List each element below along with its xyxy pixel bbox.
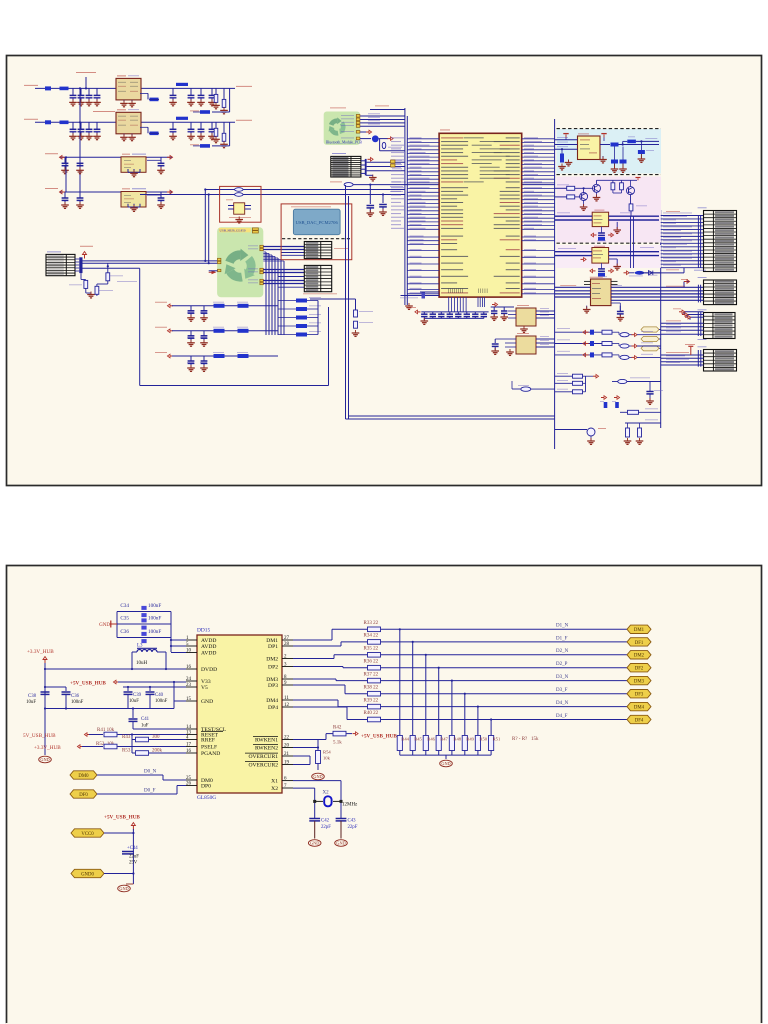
svg-text:DP2: DP2 xyxy=(268,665,278,671)
svg-text:R39 22: R39 22 xyxy=(364,698,379,703)
svg-text:DM2: DM2 xyxy=(266,657,278,663)
svg-text:VCC0: VCC0 xyxy=(81,832,94,837)
svg-text:100nF: 100nF xyxy=(155,699,168,704)
svg-text:DVDD: DVDD xyxy=(201,667,217,673)
svg-text:20: 20 xyxy=(284,743,290,748)
svg-text:C39: C39 xyxy=(133,693,142,698)
svg-text:R40 22: R40 22 xyxy=(364,711,379,716)
svg-text:14: 14 xyxy=(186,725,192,730)
svg-text:27: 27 xyxy=(284,636,290,641)
svg-text:DP3: DP3 xyxy=(268,683,278,689)
svg-text:23: 23 xyxy=(186,683,192,688)
svg-text:10: 10 xyxy=(186,648,192,653)
svg-text:C36: C36 xyxy=(120,629,129,635)
svg-text:DM4: DM4 xyxy=(634,706,645,711)
svg-text:R50: R50 xyxy=(479,737,487,742)
svg-text:DM3: DM3 xyxy=(634,680,645,685)
svg-text:R33 22: R33 22 xyxy=(364,621,379,626)
svg-text:100nF: 100nF xyxy=(148,629,161,635)
svg-text:R? - R? 15k: R? - R? 15k xyxy=(512,737,539,742)
svg-text:D2_N: D2_N xyxy=(556,649,569,654)
svg-text:R34 22: R34 22 xyxy=(364,634,379,639)
svg-text:RWKEN1: RWKEN1 xyxy=(255,738,278,744)
svg-text:28: 28 xyxy=(284,642,290,647)
svg-text:Bluetooth_Module_PCB: Bluetooth_Module_PCB xyxy=(326,140,362,144)
svg-text:21: 21 xyxy=(284,752,290,757)
svg-text:C36: C36 xyxy=(71,694,80,699)
svg-text:5.1k: 5.1k xyxy=(333,741,342,746)
svg-text:D0_N: D0_N xyxy=(144,770,157,775)
svg-text:RWKEN2: RWKEN2 xyxy=(255,746,278,752)
svg-text:OVERCUR2: OVERCUR2 xyxy=(248,763,278,769)
svg-text:26: 26 xyxy=(186,781,192,786)
svg-text:1uF: 1uF xyxy=(141,724,149,729)
svg-text:DF0: DF0 xyxy=(79,793,88,798)
svg-text:24: 24 xyxy=(186,677,192,682)
svg-text:D1_F: D1_F xyxy=(556,636,568,641)
svg-text:25V: 25V xyxy=(129,861,138,866)
svg-text:17: 17 xyxy=(186,742,192,747)
svg-text:25: 25 xyxy=(186,776,192,781)
svg-text:GND: GND xyxy=(99,623,110,628)
svg-text:DM2: DM2 xyxy=(634,654,645,659)
svg-text:R36 22: R36 22 xyxy=(364,659,379,664)
svg-text:10uF: 10uF xyxy=(26,700,36,705)
svg-text:D2_P: D2_P xyxy=(556,662,568,667)
svg-text:GND0: GND0 xyxy=(81,872,94,877)
svg-text:R46: R46 xyxy=(427,737,435,742)
svg-text:GL850G: GL850G xyxy=(197,795,216,801)
svg-text:R49: R49 xyxy=(466,737,474,742)
svg-text:D0_F: D0_F xyxy=(144,789,156,794)
svg-text:AVDD: AVDD xyxy=(201,644,216,650)
svg-text:R45: R45 xyxy=(414,737,422,742)
svg-text:22pF: 22pF xyxy=(348,825,358,830)
svg-text:USB_HUB_GL850: USB_HUB_GL850 xyxy=(220,229,246,233)
svg-text:PSELF: PSELF xyxy=(201,745,217,751)
svg-text:D3_F: D3_F xyxy=(556,688,568,693)
svg-text:DF2: DF2 xyxy=(635,667,644,672)
svg-text:R53: R53 xyxy=(122,749,131,754)
svg-text:C40: C40 xyxy=(155,693,164,698)
svg-text:+5V_USB_HUB: +5V_USB_HUB xyxy=(70,680,106,686)
svg-text:D3_N: D3_N xyxy=(556,675,569,680)
svg-text:C35: C35 xyxy=(120,615,129,621)
svg-text:RREF: RREF xyxy=(201,738,215,744)
svg-text:D4_F: D4_F xyxy=(556,714,568,719)
svg-text:12: 12 xyxy=(284,703,290,708)
svg-text:+C44: +C44 xyxy=(127,846,138,851)
svg-text:10k: 10k xyxy=(323,756,331,761)
svg-text:C43: C43 xyxy=(348,819,357,824)
svg-text:DP1: DP1 xyxy=(268,644,278,650)
svg-text:15: 15 xyxy=(186,697,192,702)
svg-text:X2: X2 xyxy=(323,791,330,796)
svg-text:+5V_USB_HUB: +5V_USB_HUB xyxy=(361,733,397,739)
svg-text:100nF: 100nF xyxy=(148,603,161,609)
svg-text:GND: GND xyxy=(336,841,345,846)
svg-text:V5: V5 xyxy=(201,685,208,691)
svg-text:GND: GND xyxy=(310,841,319,846)
svg-text:R42: R42 xyxy=(333,726,342,731)
svg-text:100nF: 100nF xyxy=(148,615,161,621)
svg-text:10uH: 10uH xyxy=(136,661,148,666)
svg-text:DM0: DM0 xyxy=(78,774,89,779)
svg-text:USB_DAC_PCM2706: USB_DAC_PCM2706 xyxy=(296,220,339,225)
svg-text:11: 11 xyxy=(284,696,289,701)
svg-text:X2: X2 xyxy=(271,786,278,792)
svg-text:16: 16 xyxy=(186,749,192,754)
svg-text:22: 22 xyxy=(284,735,290,740)
svg-text:+5V_USB_HUB: +5V_USB_HUB xyxy=(104,815,140,821)
svg-text:19: 19 xyxy=(284,760,290,765)
svg-text:R35 22: R35 22 xyxy=(364,647,379,652)
svg-text:DP0: DP0 xyxy=(201,784,211,790)
svg-text:5V_USB_HUB: 5V_USB_HUB xyxy=(23,733,56,739)
svg-text:+3.3V_HUB: +3.3V_HUB xyxy=(27,649,54,655)
svg-text:DF1: DF1 xyxy=(635,641,644,646)
svg-text:GND: GND xyxy=(119,886,128,891)
svg-text:R38 22: R38 22 xyxy=(364,685,379,690)
svg-text:D1_N: D1_N xyxy=(556,624,569,629)
svg-text:12MHz: 12MHz xyxy=(342,803,358,808)
svg-text:R51: R51 xyxy=(493,737,501,742)
svg-text:22pF: 22pF xyxy=(321,825,331,830)
svg-text:GND: GND xyxy=(441,761,450,766)
svg-text:C42: C42 xyxy=(321,819,330,824)
svg-text:DM1: DM1 xyxy=(634,628,645,633)
svg-text:100nF: 100nF xyxy=(71,700,84,705)
svg-text:GND: GND xyxy=(40,757,49,762)
svg-text:C38: C38 xyxy=(28,694,37,699)
svg-text:C34: C34 xyxy=(120,603,129,609)
svg-text:OVERCUR1: OVERCUR1 xyxy=(248,754,278,760)
svg-text:GND: GND xyxy=(201,699,213,705)
svg-text:R44: R44 xyxy=(401,737,409,742)
svg-text:+3.3V_HUB: +3.3V_HUB xyxy=(34,745,61,751)
svg-text:R48: R48 xyxy=(453,737,461,742)
svg-text:R37 22: R37 22 xyxy=(364,672,379,677)
svg-text:GND: GND xyxy=(313,774,322,779)
svg-text:R47: R47 xyxy=(440,737,448,742)
svg-text:16: 16 xyxy=(186,665,192,670)
svg-text:DD15: DD15 xyxy=(197,628,210,634)
svg-text:DF4: DF4 xyxy=(635,718,644,723)
svg-text:R54: R54 xyxy=(323,750,331,755)
svg-text:10uF: 10uF xyxy=(129,699,139,704)
svg-text:C41: C41 xyxy=(141,717,150,722)
svg-text:DF3: DF3 xyxy=(635,693,644,698)
svg-text:R43: R43 xyxy=(122,735,131,740)
svg-text:PGAND: PGAND xyxy=(201,751,220,757)
svg-text:X1: X1 xyxy=(271,779,278,785)
svg-text:22uF: 22uF xyxy=(129,855,139,860)
svg-text:D4_N: D4_N xyxy=(556,701,569,706)
svg-text:AVDD: AVDD xyxy=(201,651,216,657)
svg-text:DM4: DM4 xyxy=(266,698,278,704)
svg-text:DP4: DP4 xyxy=(268,705,278,711)
